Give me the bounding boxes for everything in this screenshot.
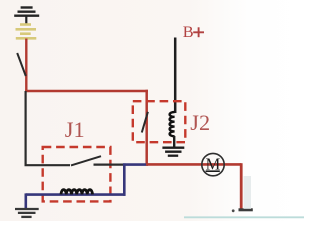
wire: junction A down to J1 contact (black) bbox=[26, 91, 70, 165]
wire: blue link from J1 contact to red junction bbox=[123, 163, 148, 166]
svg-text:J1: J1 bbox=[65, 117, 85, 142]
wire: battery positive down to junction A (red) bbox=[25, 39, 27, 92]
battery GB bbox=[16, 25, 37, 39]
wire: J2 coil to ground stub bbox=[173, 136, 175, 147]
switch: J2 relay contact blade bbox=[142, 112, 148, 133]
ground (top left, above battery) bbox=[14, 8, 39, 25]
teal watermark line (bottom right) bbox=[184, 216, 304, 218]
ground (below J2 coil) bbox=[162, 148, 184, 156]
coil of relay J2 bbox=[170, 112, 175, 136]
switch: J1 relay contact blade bbox=[71, 156, 101, 165]
wire: B+ down to J2 coil (black) bbox=[174, 38, 177, 114]
smudge artifact right of red vertical bbox=[244, 176, 251, 209]
wire: red horizontal to motor and beyond bbox=[146, 163, 241, 166]
wire: red vertical through J2 contact down to motor line bbox=[145, 90, 148, 164]
wire: blue bottom horizontal through J1 coil bbox=[26, 193, 126, 196]
svg-text:J2: J2 bbox=[190, 110, 210, 135]
wire: red vertical down at right bbox=[240, 163, 243, 209]
svg-text:B: B bbox=[183, 22, 194, 41]
wire: junction A to right (red horizontal) bbox=[25, 90, 148, 92]
relay J2 dashed box bbox=[133, 101, 186, 142]
motor M bbox=[202, 153, 224, 175]
switch S (battery switch blade) bbox=[17, 53, 26, 76]
ground (bottom left) bbox=[15, 209, 39, 217]
dot artifact bbox=[232, 209, 235, 212]
wire: dark end bar bottom right bbox=[239, 208, 253, 211]
relay J1 dashed box bbox=[43, 147, 111, 201]
coil of relay J1 bbox=[61, 190, 93, 195]
wire: J1 contact right lead (black) bbox=[94, 164, 124, 166]
wire: blue down to ground (bottom left) bbox=[24, 193, 27, 208]
wire: blue vertical down from contact lead bbox=[123, 163, 126, 195]
